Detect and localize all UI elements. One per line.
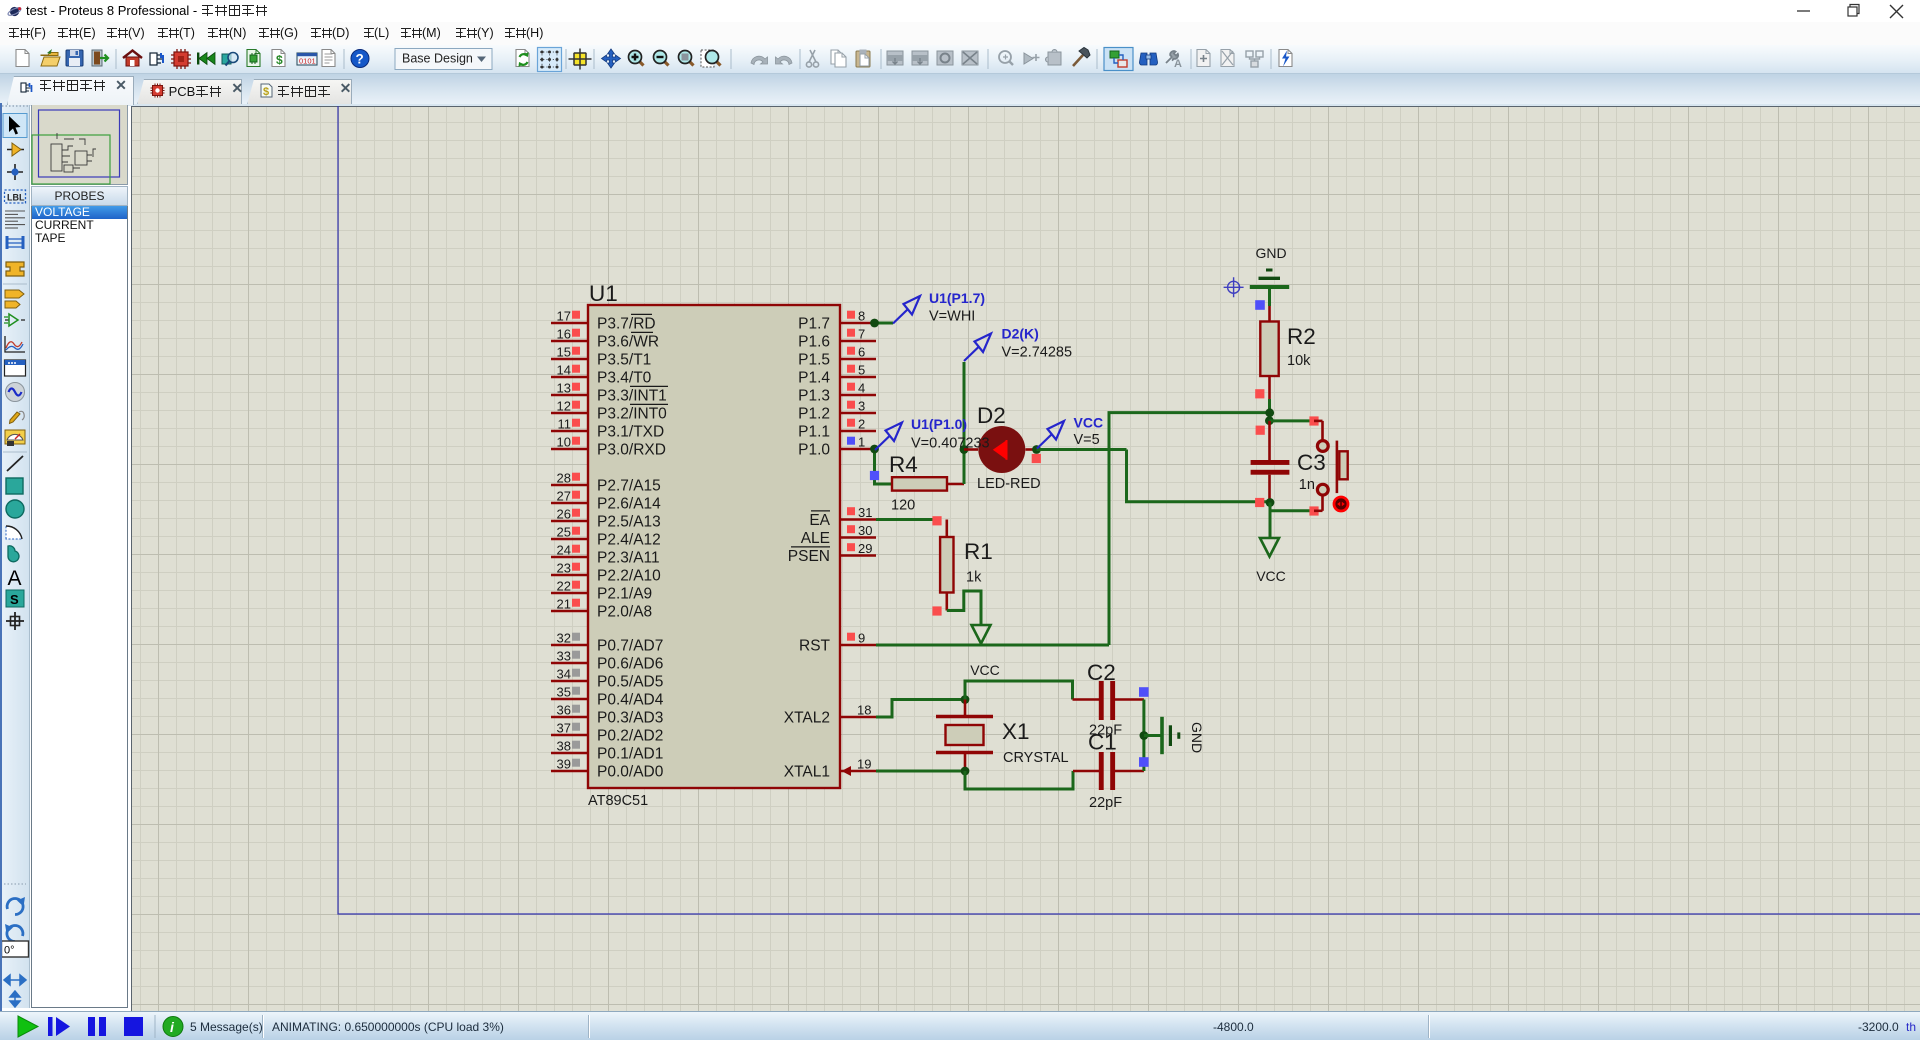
pin 11 (P3.1/TXD) left <box>551 417 664 441</box>
svg-text:V=WHI: V=WHI <box>929 309 975 325</box>
svg-text:RST: RST <box>799 638 831 655</box>
svg-text:P2.3/A11: P2.3/A11 <box>597 550 660 567</box>
svg-text:36: 36 <box>557 703 571 718</box>
capacitor C3 1n <box>1251 421 1326 503</box>
svg-text:32: 32 <box>557 631 571 646</box>
svg-text:AT89C51: AT89C51 <box>588 793 648 809</box>
wire crystal bottom loop to C1 <box>965 771 1073 789</box>
capacitor C1 22pF <box>1073 730 1144 812</box>
pin 2 (P1.1) right <box>798 417 876 441</box>
button top terminal marker <box>1309 416 1318 425</box>
wire P1.7 to probe <box>876 322 893 325</box>
D2 anode state marker <box>1032 454 1041 463</box>
svg-text:6: 6 <box>858 345 865 360</box>
svg-text:A: A <box>1174 58 1182 70</box>
svg-text:R2: R2 <box>1287 324 1316 349</box>
origin marker <box>1224 277 1244 297</box>
ground symbol GND (rotated) <box>1162 717 1205 754</box>
push button (parallel with C3) <box>1314 421 1348 495</box>
wire node to button top <box>1270 419 1313 422</box>
svg-text:1: 1 <box>858 435 865 450</box>
wire down to C3 bottom node <box>1127 450 1269 502</box>
svg-text:37: 37 <box>557 721 571 736</box>
resistor R1 1k <box>940 520 993 611</box>
node D2 anode <box>1032 445 1041 454</box>
svg-text:27: 27 <box>557 489 571 504</box>
svg-text:39: 39 <box>557 757 571 772</box>
menu bar <box>0 22 1920 45</box>
svg-text:21: 21 <box>557 597 571 612</box>
pin 18 (XTAL2) right <box>784 703 876 727</box>
svg-text:24: 24 <box>557 543 571 558</box>
svg-text:19: 19 <box>857 757 871 772</box>
svg-text:17: 17 <box>557 309 571 324</box>
window left edge <box>0 103 2 1040</box>
svg-text:P0.2/AD2: P0.2/AD2 <box>597 728 663 745</box>
svg-text:V=2.74285: V=2.74285 <box>1002 345 1073 361</box>
LED D2 LED-RED <box>964 403 1041 492</box>
svg-text:0101: 0101 <box>299 57 316 66</box>
svg-text:P1.5: P1.5 <box>798 352 830 369</box>
P1.0 wire state marker <box>870 471 879 480</box>
svg-text:A: A <box>8 567 22 590</box>
svg-text:5: 5 <box>858 363 865 378</box>
pin 36 (P0.3/AD3) left <box>551 703 663 727</box>
svg-text:28: 28 <box>557 471 571 486</box>
svg-text:P0.0/AD0: P0.0/AD0 <box>597 764 664 781</box>
main toolbar <box>0 45 1920 74</box>
svg-text:P0.1/AD1: P0.1/AD1 <box>597 746 663 763</box>
svg-text:22pF: 22pF <box>1089 795 1122 811</box>
svg-text:P2.5/A13: P2.5/A13 <box>597 514 661 531</box>
pin 25 (P2.4/A12) left <box>551 525 661 549</box>
svg-text:38: 38 <box>557 739 571 754</box>
left tool sidebar <box>0 103 30 1008</box>
wire C2-C1 right vertical <box>1142 700 1145 772</box>
svg-text:GND: GND <box>1255 245 1286 261</box>
capacitor C2 22pF <box>1073 660 1144 739</box>
svg-text:D2: D2 <box>977 403 1006 428</box>
status bar <box>0 1011 1920 1040</box>
svg-text:2: 2 <box>858 417 865 432</box>
R1 top terminal marker <box>932 516 941 525</box>
svg-text:P0.7/AD7: P0.7/AD7 <box>597 638 663 655</box>
svg-text:$: $ <box>276 53 283 67</box>
svg-text:C3: C3 <box>1297 450 1326 475</box>
wire GND to R2 <box>1268 287 1271 306</box>
pin 34 (P0.5/AD5) left <box>551 667 663 691</box>
svg-text:V=5: V=5 <box>1074 432 1100 448</box>
svg-text:12: 12 <box>557 399 571 414</box>
svg-text:10: 10 <box>557 435 571 450</box>
title bar <box>0 0 1920 22</box>
svg-text:1k: 1k <box>966 570 982 586</box>
pin 24 (P2.3/A11) left <box>551 543 660 567</box>
svg-text:P2.4/A12: P2.4/A12 <box>597 532 661 549</box>
pin 3 (P1.2) right <box>798 399 876 423</box>
svg-text:P3.0/RXD: P3.0/RXD <box>597 442 666 459</box>
probes panel <box>31 186 128 206</box>
pin 37 (P0.2/AD2) left <box>551 721 663 745</box>
pin 12 (P3.2/INT0) left <box>551 399 668 423</box>
wire node to button bottom <box>1270 509 1312 512</box>
ground symbol GND (top) <box>1250 245 1289 287</box>
svg-text:ALE: ALE <box>801 530 830 547</box>
svg-text:XTAL1: XTAL1 <box>784 764 830 781</box>
svg-text:P1.1: P1.1 <box>798 424 830 441</box>
wire D2 anode to vertical <box>1037 448 1127 451</box>
svg-text:P2.6/A14: P2.6/A14 <box>597 496 661 513</box>
svg-text:13: 13 <box>557 381 571 396</box>
C1 right state marker <box>1139 757 1149 767</box>
svg-text:P1.2: P1.2 <box>798 406 830 423</box>
node gnd tap <box>1140 731 1149 740</box>
svg-text:11: 11 <box>558 417 572 432</box>
pin 30 (ALE) right <box>801 523 876 547</box>
wire to GND symbol <box>1144 734 1162 737</box>
pin 26 (P2.5/A13) left <box>551 507 661 531</box>
wire XTAL1 to crystal bottom <box>876 770 965 773</box>
C3 top terminal marker <box>1256 426 1265 435</box>
svg-text:16: 16 <box>557 327 571 342</box>
svg-text:XTAL2: XTAL2 <box>784 710 830 727</box>
node C3 bottom <box>1266 498 1275 507</box>
svg-text:X1: X1 <box>1002 719 1030 744</box>
svg-text:26: 26 <box>557 507 571 522</box>
pin 13 (P3.3/INT1) left <box>551 381 668 405</box>
svg-text:22: 22 <box>557 579 571 594</box>
svg-text:R1: R1 <box>964 539 993 564</box>
sheet border <box>338 106 1920 914</box>
svg-text:P3.5/T1: P3.5/T1 <box>597 352 651 369</box>
wire R2 to node <box>1268 399 1271 422</box>
voltage probe VCC on D2 anode <box>1037 415 1103 449</box>
svg-text:LBL: LBL <box>7 193 25 203</box>
svg-text:29: 29 <box>858 541 872 556</box>
pin 6 (P1.5) right <box>798 345 876 369</box>
pin 5 (P1.4) right <box>798 363 876 387</box>
pin 1 (P1.0) right <box>798 435 876 459</box>
svg-text:GND: GND <box>1189 722 1205 753</box>
overview preview panel <box>31 103 128 185</box>
pin 17 (P3.7/RD) left <box>551 309 656 333</box>
svg-text:P2.1/A9: P2.1/A9 <box>597 586 652 603</box>
voltage probe D2(K) <box>964 326 1072 362</box>
button actuator <box>1334 497 1348 511</box>
pin 9 (RST) right <box>799 631 876 655</box>
node crystal bottom <box>961 767 970 776</box>
pin 28 (P2.7/A15) left <box>551 471 661 495</box>
svg-text:35: 35 <box>557 685 571 700</box>
node crystal top <box>961 695 970 704</box>
wire RST from pin 9 <box>876 644 1109 647</box>
button bottom terminal marker <box>1309 506 1318 515</box>
svg-text:P3.2/INT0: P3.2/INT0 <box>597 406 667 423</box>
wire RST riser to R2 bottom node <box>1109 413 1268 645</box>
svg-text:U1(P1.7): U1(P1.7) <box>929 290 985 306</box>
XTAL1 clock input mark <box>842 766 852 776</box>
svg-text:7: 7 <box>858 327 865 342</box>
wire EA to R1 <box>876 518 938 521</box>
wire crystal top loop to C2 <box>965 681 1073 700</box>
svg-text:P2.2/A10: P2.2/A10 <box>597 568 661 585</box>
wire node to VCC power <box>1269 503 1272 539</box>
svg-text:R4: R4 <box>889 452 918 477</box>
svg-text:18: 18 <box>857 703 871 718</box>
voltage probe U1(P1.0) <box>875 416 990 452</box>
svg-text:D2(K): D2(K) <box>1002 326 1039 342</box>
svg-text:8: 8 <box>858 309 865 324</box>
svg-text:25: 25 <box>557 525 571 540</box>
pin 39 (P0.0/AD0) left <box>551 757 664 781</box>
svg-text:4: 4 <box>858 381 865 396</box>
C2 right state marker <box>1139 687 1149 697</box>
wire P1.0 down to R4 <box>875 449 894 484</box>
svg-text:P3.6/WR: P3.6/WR <box>597 334 659 351</box>
svg-text:33: 33 <box>557 649 571 664</box>
node D2 cathode <box>960 445 969 454</box>
svg-text:C2: C2 <box>1087 660 1116 685</box>
R1 bottom terminal marker <box>932 606 941 615</box>
svg-text:P0.3/AD3: P0.3/AD3 <box>597 710 663 727</box>
svg-text:VCC: VCC <box>1256 568 1286 584</box>
svg-text:P0.5/AD5: P0.5/AD5 <box>597 674 663 691</box>
pin 23 (P2.2/A10) left <box>551 561 661 585</box>
svg-text:U1(P1.0): U1(P1.0) <box>911 416 967 432</box>
svg-text:VCC: VCC <box>1074 415 1104 431</box>
svg-text:P3.1/TXD: P3.1/TXD <box>597 424 664 441</box>
svg-text:U1: U1 <box>589 281 618 306</box>
svg-text:$: $ <box>263 86 269 98</box>
svg-text:P2.7/A15: P2.7/A15 <box>597 478 661 495</box>
pin 22 (P2.1/A9) left <box>551 579 652 603</box>
resistor R4 120 <box>889 452 964 514</box>
svg-text:?: ? <box>356 52 364 67</box>
svg-text:P1.4: P1.4 <box>798 370 830 387</box>
node P1.7 junction <box>870 319 879 328</box>
pin 38 (P0.1/AD1) left <box>551 739 663 763</box>
svg-text:3: 3 <box>858 399 865 414</box>
svg-text:C1: C1 <box>1088 730 1117 755</box>
pin 21 (P2.0/A8) left <box>551 597 652 621</box>
pin 29 (PSEN) right <box>788 541 876 565</box>
node button-top tap <box>1265 416 1274 425</box>
pin 10 (P3.0/RXD) left <box>551 435 666 459</box>
node RST-R2 <box>1265 408 1274 417</box>
svg-text:P3.7/RD: P3.7/RD <box>597 316 656 333</box>
svg-text:P1.6: P1.6 <box>798 334 830 351</box>
wire XTAL2 to crystal top <box>876 700 965 718</box>
svg-text:14: 14 <box>557 363 571 378</box>
svg-text:V=0.407233: V=0.407233 <box>911 436 990 452</box>
crystal X1 <box>936 700 1069 772</box>
svg-text:1n: 1n <box>1299 477 1315 493</box>
svg-text:120: 120 <box>891 498 915 514</box>
pin 32 (P0.7/AD7) left <box>551 631 663 655</box>
pin 16 (P3.6/WR) left <box>551 327 659 351</box>
pin 7 (P1.6) right <box>798 327 876 351</box>
svg-text:15: 15 <box>557 345 571 360</box>
wire R1 bottom to VCC power <box>947 591 981 625</box>
svg-text:31: 31 <box>858 505 872 520</box>
svg-text:0°: 0° <box>4 945 15 957</box>
R2 top state marker <box>1255 300 1265 310</box>
svg-text:34: 34 <box>557 667 571 682</box>
pin 35 (P0.4/AD4) left <box>551 685 664 709</box>
svg-text:LED-RED: LED-RED <box>977 476 1041 492</box>
svg-text:P3.3/INT1: P3.3/INT1 <box>597 388 667 405</box>
svg-text:S: S <box>10 592 19 607</box>
svg-text:10k: 10k <box>1287 353 1311 369</box>
svg-text:Base Design: Base Design <box>402 52 473 66</box>
pin 8 (P1.7) right <box>798 309 876 333</box>
svg-text:P1.0: P1.0 <box>798 442 830 459</box>
svg-text:EA: EA <box>809 512 830 529</box>
pin 27 (P2.6/A14) left <box>551 489 661 513</box>
power symbol VCC (down arrow, reset net) <box>1256 538 1286 584</box>
svg-text:9: 9 <box>858 631 865 646</box>
svg-text:P0.6/AD6: P0.6/AD6 <box>597 656 663 673</box>
svg-text:PSEN: PSEN <box>788 548 830 565</box>
svg-text:23: 23 <box>557 561 571 576</box>
pin 4 (P1.3) right <box>798 381 876 405</box>
node P1.0 junction <box>870 445 879 454</box>
R2 bottom terminal marker <box>1255 389 1264 398</box>
pin 15 (P3.5/T1) left <box>551 345 651 369</box>
pin 14 (P3.4/T0) left <box>551 363 652 387</box>
IC U1 AT89C51 body <box>588 281 840 809</box>
voltage probe U1(P1.7) <box>893 290 985 325</box>
svg-text:P0.4/AD4: P0.4/AD4 <box>597 692 664 709</box>
pin 19 (XTAL1) right <box>784 757 876 781</box>
svg-text:P1.3: P1.3 <box>798 388 830 405</box>
svg-text:30: 30 <box>858 523 872 538</box>
pin 31 (EA) right <box>809 505 876 529</box>
svg-text:P3.4/T0: P3.4/T0 <box>597 370 652 387</box>
resistor R2 10k <box>1260 306 1315 399</box>
svg-text:P1.7: P1.7 <box>798 316 830 333</box>
pin 33 (P0.6/AD6) left <box>551 649 663 673</box>
document tabs <box>0 74 1920 104</box>
wire D2 cathode node vertical <box>963 362 966 484</box>
svg-text:CRYSTAL: CRYSTAL <box>1003 750 1069 766</box>
power symbol VCC (down arrow) <box>970 625 1000 678</box>
svg-text:P2.0/A8: P2.0/A8 <box>597 604 652 621</box>
svg-text:VCC: VCC <box>970 662 1000 678</box>
C3 bottom terminal marker <box>1255 498 1264 507</box>
